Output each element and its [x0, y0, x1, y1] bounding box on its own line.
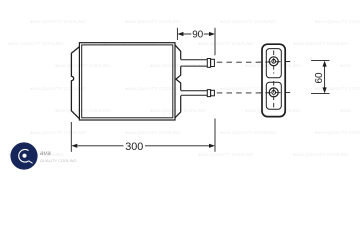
svg-text:QUALITY COOLING: QUALITY COOLING: [40, 158, 77, 163]
bottom port: [269, 88, 278, 97]
port vertical centerline (bottom): [273, 81, 275, 108]
dimension 60: [311, 61, 330, 94]
watermark pattern: [8, 19, 360, 158]
svg-text:●ava QUALITY COOLING: ●ava QUALITY COOLING: [30, 86, 86, 92]
pipe centerline (top, dashed): [217, 60, 295, 63]
svg-text:●ava QUALITY COOLING: ●ava QUALITY COOLING: [30, 130, 86, 136]
svg-text:●ava: ●ava: [340, 64, 351, 69]
dimension 90: [177, 28, 215, 56]
svg-text:●ava QUALITY COOLING: ●ava QUALITY COOLING: [220, 19, 276, 25]
svg-text:●ava QUALITY COOLING: ●ava QUALITY COOLING: [8, 41, 64, 47]
svg-text:90: 90: [192, 30, 203, 41]
mounting flange plate (outer): [262, 44, 285, 116]
svg-text:●ava QUALITY COOLING: ●ava QUALITY COOLING: [315, 19, 360, 25]
svg-text:●ava QUALITY COOLING: ●ava QUALITY COOLING: [293, 152, 349, 158]
AVA logo emblem: [10, 142, 76, 169]
svg-text:●ava QUALITY COOLING: ●ava QUALITY COOLING: [125, 19, 181, 25]
svg-text:●ava QUALITY COOLING: ●ava QUALITY COOLING: [55, 63, 111, 69]
flange inner frame (bottom): [266, 82, 281, 109]
svg-text:●ava QUALITY COOLING: ●ava QUALITY COOLING: [125, 130, 181, 136]
svg-text:●ava QUALITY COOLING: ●ava QUALITY COOLING: [30, 19, 86, 25]
dimension 300: [71, 119, 215, 152]
port vertical centerline (top): [273, 51, 275, 74]
svg-text:●ava QUALITY COOLING: ●ava QUALITY COOLING: [55, 108, 111, 114]
svg-text:ava: ava: [40, 150, 51, 157]
svg-text:●ava: ●ava: [340, 109, 351, 114]
left side bracket: [71, 47, 79, 119]
svg-text:●ava QUALITY COOLING: ●ava QUALITY COOLING: [293, 41, 349, 47]
heater core matrix (double-line frame): [79, 43, 175, 120]
svg-text:●ava QUALITY COOLING: ●ava QUALITY COOLING: [198, 41, 254, 47]
svg-text:●ava QUALITY COOLING: ●ava QUALITY COOLING: [150, 108, 206, 114]
svg-text:●ava QUALITY COOLING: ●ava QUALITY COOLING: [315, 130, 360, 136]
svg-text:300: 300: [125, 141, 143, 153]
svg-text:●ava QUALITY COOLING: ●ava QUALITY COOLING: [103, 41, 159, 47]
svg-text:60: 60: [314, 72, 325, 83]
right tank: [175, 45, 181, 118]
top port: [269, 57, 278, 66]
pipe centerline (bottom, dashed): [217, 92, 295, 94]
flange inner frame (top): [266, 49, 281, 78]
svg-text:●ava QUALITY COOLING: ●ava QUALITY COOLING: [220, 130, 276, 136]
svg-text:●ava QUALITY COOLING: ●ava QUALITY COOLING: [220, 86, 276, 92]
inlet pipe (top): [181, 59, 215, 68]
outlet pipe (bottom): [181, 90, 215, 97]
svg-text:●ava QUALITY COOLING: ●ava QUALITY COOLING: [198, 152, 254, 158]
svg-text:●ava QUALITY COOLING: ●ava QUALITY COOLING: [315, 86, 360, 92]
